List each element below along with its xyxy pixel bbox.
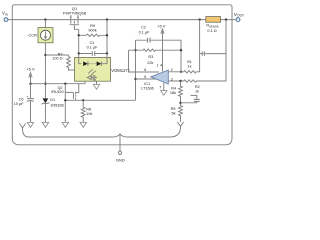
svg-text:0.1 μF: 0.1 μF xyxy=(87,45,99,49)
svg-text:C2: C2 xyxy=(141,26,146,30)
svg-text:GND: GND xyxy=(116,158,125,163)
svg-text:8: 8 xyxy=(144,68,146,72)
svg-text:C6: C6 xyxy=(19,98,24,102)
svg-text:VOUT: VOUT xyxy=(234,12,244,18)
svg-text:D1: D1 xyxy=(50,98,55,102)
svg-text:10 μF: 10 μF xyxy=(14,102,24,106)
svg-text:CCR: CCR xyxy=(28,33,37,38)
svg-text:1: 1 xyxy=(157,63,159,67)
svg-text:R8: R8 xyxy=(86,108,91,112)
svg-text:5k: 5k xyxy=(171,111,175,115)
svg-text:+5 V: +5 V xyxy=(26,67,35,72)
svg-text:R4: R4 xyxy=(171,87,176,91)
svg-text:2: 2 xyxy=(171,68,173,72)
svg-text:100 Ω: 100 Ω xyxy=(52,57,62,61)
svg-text:LT1636: LT1636 xyxy=(141,87,154,91)
svg-text:900k: 900k xyxy=(88,28,96,32)
svg-text:VIN: VIN xyxy=(2,11,8,17)
svg-text:VOM1271: VOM1271 xyxy=(111,68,131,73)
svg-text:7: 7 xyxy=(159,86,161,90)
svg-text:+: + xyxy=(27,95,29,99)
svg-text:4: 4 xyxy=(160,63,162,67)
svg-text:1N5338: 1N5338 xyxy=(50,104,63,108)
svg-text:0.1 μF: 0.1 μF xyxy=(139,30,151,34)
svg-text:IC1: IC1 xyxy=(144,82,150,86)
svg-text:R9: R9 xyxy=(90,24,95,28)
svg-text:PHP79NQ08: PHP79NQ08 xyxy=(63,11,87,16)
svg-text:RSENSE: RSENSE xyxy=(206,24,218,29)
svg-text:R3: R3 xyxy=(148,55,153,59)
svg-text:18k: 18k xyxy=(170,91,176,95)
svg-text:1k: 1k xyxy=(195,89,199,93)
svg-text:+5 V: +5 V xyxy=(157,24,166,29)
svg-text:IRL520: IRL520 xyxy=(51,90,63,94)
svg-text:0.1 Ω: 0.1 Ω xyxy=(207,29,216,33)
svg-text:22k: 22k xyxy=(147,61,153,65)
svg-text:1k: 1k xyxy=(187,64,191,68)
svg-text:10k: 10k xyxy=(86,112,92,116)
svg-text:R5: R5 xyxy=(171,107,176,111)
svg-text:6: 6 xyxy=(144,75,146,79)
